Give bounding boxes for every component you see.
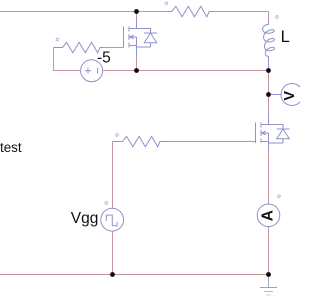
resistor R3 [113,136,168,146]
wire M2 source to ammeter [268,149,270,204]
junction node ground [266,272,271,277]
body diode D1 of M1 [137,29,158,48]
junction node inductor bottom [266,68,271,73]
wire Vgg to bottom rail [112,231,114,275]
wire bottom rail [0,274,269,276]
pin marker ammeter [278,195,281,198]
ammeter A [257,204,280,227]
svg-text:test: test [0,140,22,155]
voltage source V2 Vgg [101,208,124,231]
nmos M1 [124,18,137,58]
inductor L1 [263,20,275,71]
pin marker L1 [276,16,279,19]
voltmeter V [271,84,303,106]
junction node top drain [134,9,139,14]
wire right column inductor to V node [268,71,270,95]
pin marker R3 [116,134,119,137]
wire ammeter to bottom rail [268,227,270,275]
pin marker R2 [56,38,59,41]
wire R3 left corner down to Vgg [113,142,123,209]
wire V node to M2 drain [268,95,270,114]
resistor R2 [54,42,105,52]
wire M1 source drop [136,57,138,71]
body diode D2 of M2 [269,125,290,144]
wire R3 to gate M2 [168,141,256,143]
wire top rail right + corner to inductor [214,12,269,22]
pin marker R1 [165,2,168,5]
pin marker Vgg [105,202,108,205]
junction node M1 source [134,68,139,73]
svg-text:A: A [260,210,277,221]
wire R2 to gate M1 [105,47,124,49]
wire drain M1 [136,12,138,21]
svg-text:-5: -5 [97,49,111,66]
svg-text:V: V [282,91,298,101]
ground [260,277,277,295]
wire top rail [0,11,167,13]
nmos M2 [256,113,269,150]
junction node Vgg bottom [110,272,115,277]
junction node voltmeter tap [266,92,271,97]
resistor R1 [167,6,214,16]
wire -5 source left loop [54,48,81,71]
voltage source V1 -5 [81,60,103,82]
svg-text:L: L [281,28,290,46]
wire source row y=70.5 [103,70,269,72]
svg-text:Vgg: Vgg [71,210,99,227]
